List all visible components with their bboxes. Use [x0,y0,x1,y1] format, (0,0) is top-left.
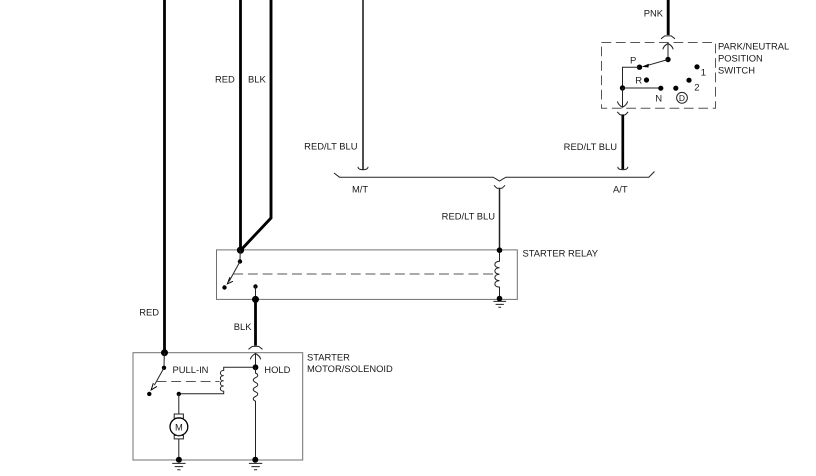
ground (hold coil) [249,463,262,469]
motor M circle [170,418,188,436]
pull-in linkage dashed line [157,381,220,383]
relay linkage dashed line [233,273,495,275]
connector cup at park/neutral switch top [661,36,675,39]
svg-text:STARTER RELAY: STARTER RELAY [523,247,599,258]
svg-text:MOTOR/SOLENOID: MOTOR/SOLENOID [307,363,393,374]
svg-text:RED: RED [215,74,235,85]
svg-text:PULL-IN: PULL-IN [173,364,209,375]
ground (motor) [172,463,185,469]
node P contact [637,65,642,70]
wire RED (left, to starter motor) [163,0,166,353]
wire relay output down through box [255,287,257,300]
connector arrow at switch bottom (A/T output) [622,88,624,107]
wire BLK (bends into relay junction) [241,0,271,250]
node pull-in contact (open) [147,392,151,396]
svg-text:M: M [175,421,183,432]
wire RED/LT BLU to starter relay [499,188,501,250]
svg-text:R: R [635,75,642,86]
connector cup below switch [617,112,628,115]
svg-text:1: 1 [701,68,706,79]
node relay input junction [237,247,244,254]
connector cup below bus notch [494,185,505,188]
svg-text:PARK/NEUTRAL: PARK/NEUTRAL [718,41,789,52]
svg-text:D: D [679,93,685,103]
arrowhead A/T wire [618,167,628,170]
hold coil (wavy) [253,367,258,460]
motor brush (bottom) [174,436,183,439]
node relay output contact [253,284,257,288]
svg-text:RED/LT BLU: RED/LT BLU [304,141,358,152]
node 1 contact [694,64,699,69]
connector arrow inside starter box [250,354,260,360]
svg-text:PNK: PNK [644,8,664,19]
wire contact to motor [178,394,180,414]
node junction on left rail [620,85,625,90]
switch arm (common to P, with arrowhead) [647,60,669,66]
node R contact [644,77,649,82]
svg-text:HOLD: HOLD [264,364,290,375]
node D contact [673,86,678,91]
node hold coil junction [253,364,259,370]
node common contact [665,57,670,62]
svg-text:STARTER: STARTER [307,351,350,362]
ground (relay coil) [493,301,506,307]
relay coil [495,250,500,298]
svg-text:P: P [630,55,636,66]
relay switch arm with arrowhead [229,262,240,282]
svg-text:RED/LT BLU: RED/LT BLU [564,141,618,152]
svg-text:M/T: M/T [352,184,368,195]
svg-text:RED/LT BLU: RED/LT BLU [442,211,496,222]
bus brace joining M/T and A/T [334,172,655,182]
svg-text:RED: RED [139,307,159,318]
wire motor to ground [178,439,180,460]
wire RED/LT BLU (M/T branch) [362,0,364,170]
wire junction to pull-in pivot [163,353,165,368]
wire junction to pivot [239,250,241,261]
svg-text:A/T: A/T [613,184,628,195]
starter relay box [217,250,518,300]
wire RED (to starter relay) [239,0,242,250]
node N contact [658,86,663,91]
node RED input junction [161,349,168,356]
node motor branch contact [177,392,181,396]
connector arrow inside switch (pin from PNK) [663,44,673,50]
node relay coil bottom [497,296,503,302]
pull-in switch arm with arrowhead [154,368,164,386]
connector cup at starter box top [249,346,263,349]
svg-text:BLK: BLK [248,74,266,85]
node motor ground [176,457,182,463]
svg-text:BLK: BLK [234,321,252,332]
circled D symbol [677,92,688,103]
svg-text:N: N [655,94,662,105]
pull-in coil [179,367,256,393]
wire RED/LT BLU (A/T branch) [621,115,624,169]
node relay coil top [497,247,503,253]
motor brush (top) [174,414,183,418]
wire PNK [667,0,670,35]
starter motor/solenoid box [133,353,303,460]
wire from P contact to left rail [623,67,640,88]
svg-text:POSITION: POSITION [718,53,763,64]
node hold coil ground [252,457,258,463]
node relay switch pivot [238,259,242,263]
arrowhead M/T wire [358,167,368,170]
node relay output on box edge [252,296,259,303]
node 2 contact [686,78,691,83]
park/neutral position switch dashed box [602,43,716,109]
svg-text:2: 2 [694,83,699,94]
svg-text:SWITCH: SWITCH [718,64,755,75]
wire BLK relay to starter solenoid [254,299,257,345]
node relay contact (open) [222,285,226,289]
node pull-in switch pivot [162,366,166,370]
wire junction to N contact [623,87,662,89]
